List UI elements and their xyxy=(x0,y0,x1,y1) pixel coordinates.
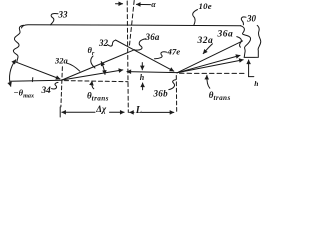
svg-text:34: 34 xyxy=(41,86,52,96)
tilted dashed axis xyxy=(129,1,134,47)
svg-text:θtrans: θtrans xyxy=(87,91,109,103)
svg-text:36a: 36a xyxy=(145,32,160,42)
label 47e xyxy=(167,46,181,56)
svg-text:−θmax: −θmax xyxy=(14,88,35,100)
label 30 xyxy=(246,14,257,24)
label 32a left xyxy=(54,56,69,66)
leader 30 xyxy=(241,17,246,25)
dashed baseline left xyxy=(65,81,129,82)
svg-text:36b: 36b xyxy=(153,88,169,98)
label 32a right xyxy=(197,36,214,46)
leader 33 xyxy=(51,13,59,24)
refracted ray V1 xyxy=(62,70,123,80)
svg-text:36a: 36a xyxy=(217,30,234,40)
label alpha xyxy=(151,0,156,9)
label 36a left xyxy=(145,32,160,42)
label -theta max xyxy=(14,88,35,100)
arrow 32a right xyxy=(203,44,212,54)
incident ray 32 xyxy=(116,40,174,71)
tick delta x left xyxy=(59,107,61,117)
svg-text:θtrans: θtrans xyxy=(209,90,231,102)
leader 47e xyxy=(155,52,167,59)
leader 34 xyxy=(52,82,59,89)
label h right xyxy=(254,79,258,88)
dashed baseline right xyxy=(180,72,247,74)
vertical dashed V1 xyxy=(61,67,63,107)
leader 32 xyxy=(107,40,115,46)
refracted ray B xyxy=(177,55,240,72)
svg-text:Δχ: Δχ xyxy=(95,104,107,114)
svg-text:32a: 32a xyxy=(54,56,69,66)
svg-text:θr: θr xyxy=(88,45,95,57)
arrow to vertical axis xyxy=(116,3,123,5)
facet ray 32a right xyxy=(177,41,243,73)
label 33 xyxy=(58,9,69,19)
svg-text:α: α xyxy=(151,0,156,9)
svg-text:h: h xyxy=(254,79,258,88)
svg-text:32: 32 xyxy=(98,38,109,48)
svg-text:30: 30 xyxy=(246,14,257,24)
leader 36a left xyxy=(136,39,146,50)
horizontal reference left xyxy=(10,79,62,82)
label theta trans right xyxy=(209,90,231,102)
label 36a right xyxy=(217,30,234,40)
h dimension right xyxy=(248,60,250,77)
svg-text:47e: 47e xyxy=(167,46,181,56)
svg-text:10e: 10e xyxy=(199,1,212,11)
svg-text:32a: 32a xyxy=(197,36,214,46)
label 10e xyxy=(199,1,212,11)
leader 10e xyxy=(193,10,198,26)
label 36b xyxy=(153,88,169,98)
label 34 xyxy=(41,86,52,96)
tick on horizontal xyxy=(31,78,33,82)
leader 36b xyxy=(169,80,176,90)
incident ray left xyxy=(14,61,60,79)
svg-text:h: h xyxy=(140,73,145,82)
vertical dashed V2 xyxy=(175,76,177,113)
dimension delta X xyxy=(62,111,95,113)
svg-text:33: 33 xyxy=(58,9,69,19)
refracted ray C xyxy=(177,60,243,73)
vertical dashed axis xyxy=(127,1,128,113)
leader theta r xyxy=(91,56,95,68)
theta trans left arrow xyxy=(92,81,94,89)
label 32 xyxy=(98,38,109,48)
theta trans right arrow xyxy=(207,75,210,88)
dimension L xyxy=(130,111,134,113)
label h center xyxy=(140,73,145,82)
leader 36a right xyxy=(237,37,242,48)
arc -theta max xyxy=(10,60,16,87)
surface line 10e xyxy=(22,25,242,28)
svg-text:L: L xyxy=(135,105,142,116)
label theta trans left xyxy=(87,91,109,103)
h dimension center top arrow xyxy=(141,63,143,70)
arrow alpha xyxy=(136,3,150,5)
arc theta r xyxy=(101,62,105,75)
facet ray 32a left xyxy=(62,50,135,80)
leader 32a left xyxy=(67,63,80,71)
left break edge xyxy=(13,25,23,62)
label theta r xyxy=(88,45,95,57)
horizontal ray to V2 xyxy=(127,72,177,73)
right break edge xyxy=(241,25,261,57)
h dimension center bottom arrow xyxy=(142,83,144,90)
